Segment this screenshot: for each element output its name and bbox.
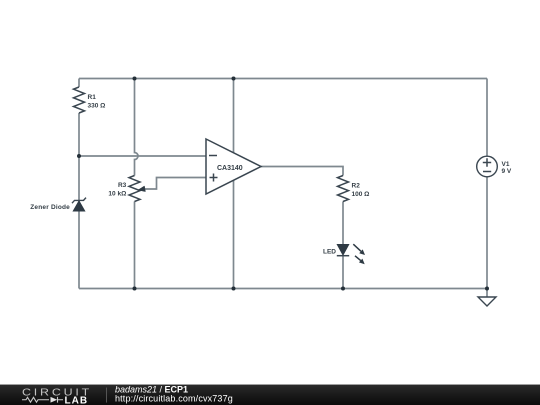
zener diode D1 (72, 198, 86, 211)
wire left rail lower (78, 113, 80, 289)
footer bar (0, 385, 540, 405)
resistor R2 (338, 176, 349, 202)
footer divider (106, 388, 107, 403)
node top R3 junction (133, 77, 137, 81)
wire op-amp V+ (233, 79, 235, 153)
wire inverting input (79, 155, 206, 157)
ground (478, 297, 496, 306)
wire R2 to LED (342, 202, 344, 245)
svg-text:10 kΩ: 10 kΩ (108, 190, 126, 197)
node left input junction (77, 154, 81, 158)
svg-text:100 Ω: 100 Ω (352, 191, 370, 198)
svg-text:R1: R1 (88, 94, 97, 101)
svg-text:LED: LED (323, 248, 336, 255)
wire right rail upper (486, 79, 488, 157)
voltage source V1 (477, 156, 498, 177)
svg-text:330 Ω: 330 Ω (88, 102, 106, 109)
svg-text:V1: V1 (502, 161, 510, 168)
wire left rail upper (78, 79, 80, 88)
LED D2 (337, 244, 365, 264)
svg-text:R2: R2 (352, 183, 361, 190)
svg-text:LAB: LAB (65, 395, 89, 405)
svg-text:9 V: 9 V (502, 168, 512, 175)
footer user / title (115, 385, 188, 394)
svg-text:Zener Diode: Zener Diode (30, 204, 70, 211)
footer url (115, 394, 233, 403)
svg-text:R3: R3 (118, 182, 127, 189)
wire right rail lower (486, 177, 488, 297)
wire R3 branch upper with hop (135, 79, 139, 176)
op-amp U1 CA3140 (206, 139, 261, 194)
resistor R1 (74, 87, 85, 113)
wire bottom rail (79, 288, 487, 290)
wire LED to bottom rail (342, 256, 344, 289)
potentiometer R3 wiper arrow (138, 186, 145, 192)
wire op-amp output (261, 167, 343, 176)
wire R3 branch lower (134, 202, 136, 289)
node bottom right junction (485, 287, 489, 291)
wire op-amp V- (233, 181, 235, 289)
CircuitLab logo (0, 385, 100, 405)
node top op-amp junction (232, 77, 236, 81)
node bottom LED junction (341, 287, 345, 291)
wire non-inverting input to wiper (145, 178, 206, 190)
node bottom R3 junction (133, 287, 137, 291)
potentiometer R3 (129, 176, 140, 202)
wire top rail (79, 78, 487, 80)
svg-text:CA3140: CA3140 (217, 165, 243, 172)
node bottom op-amp junction (232, 287, 236, 291)
